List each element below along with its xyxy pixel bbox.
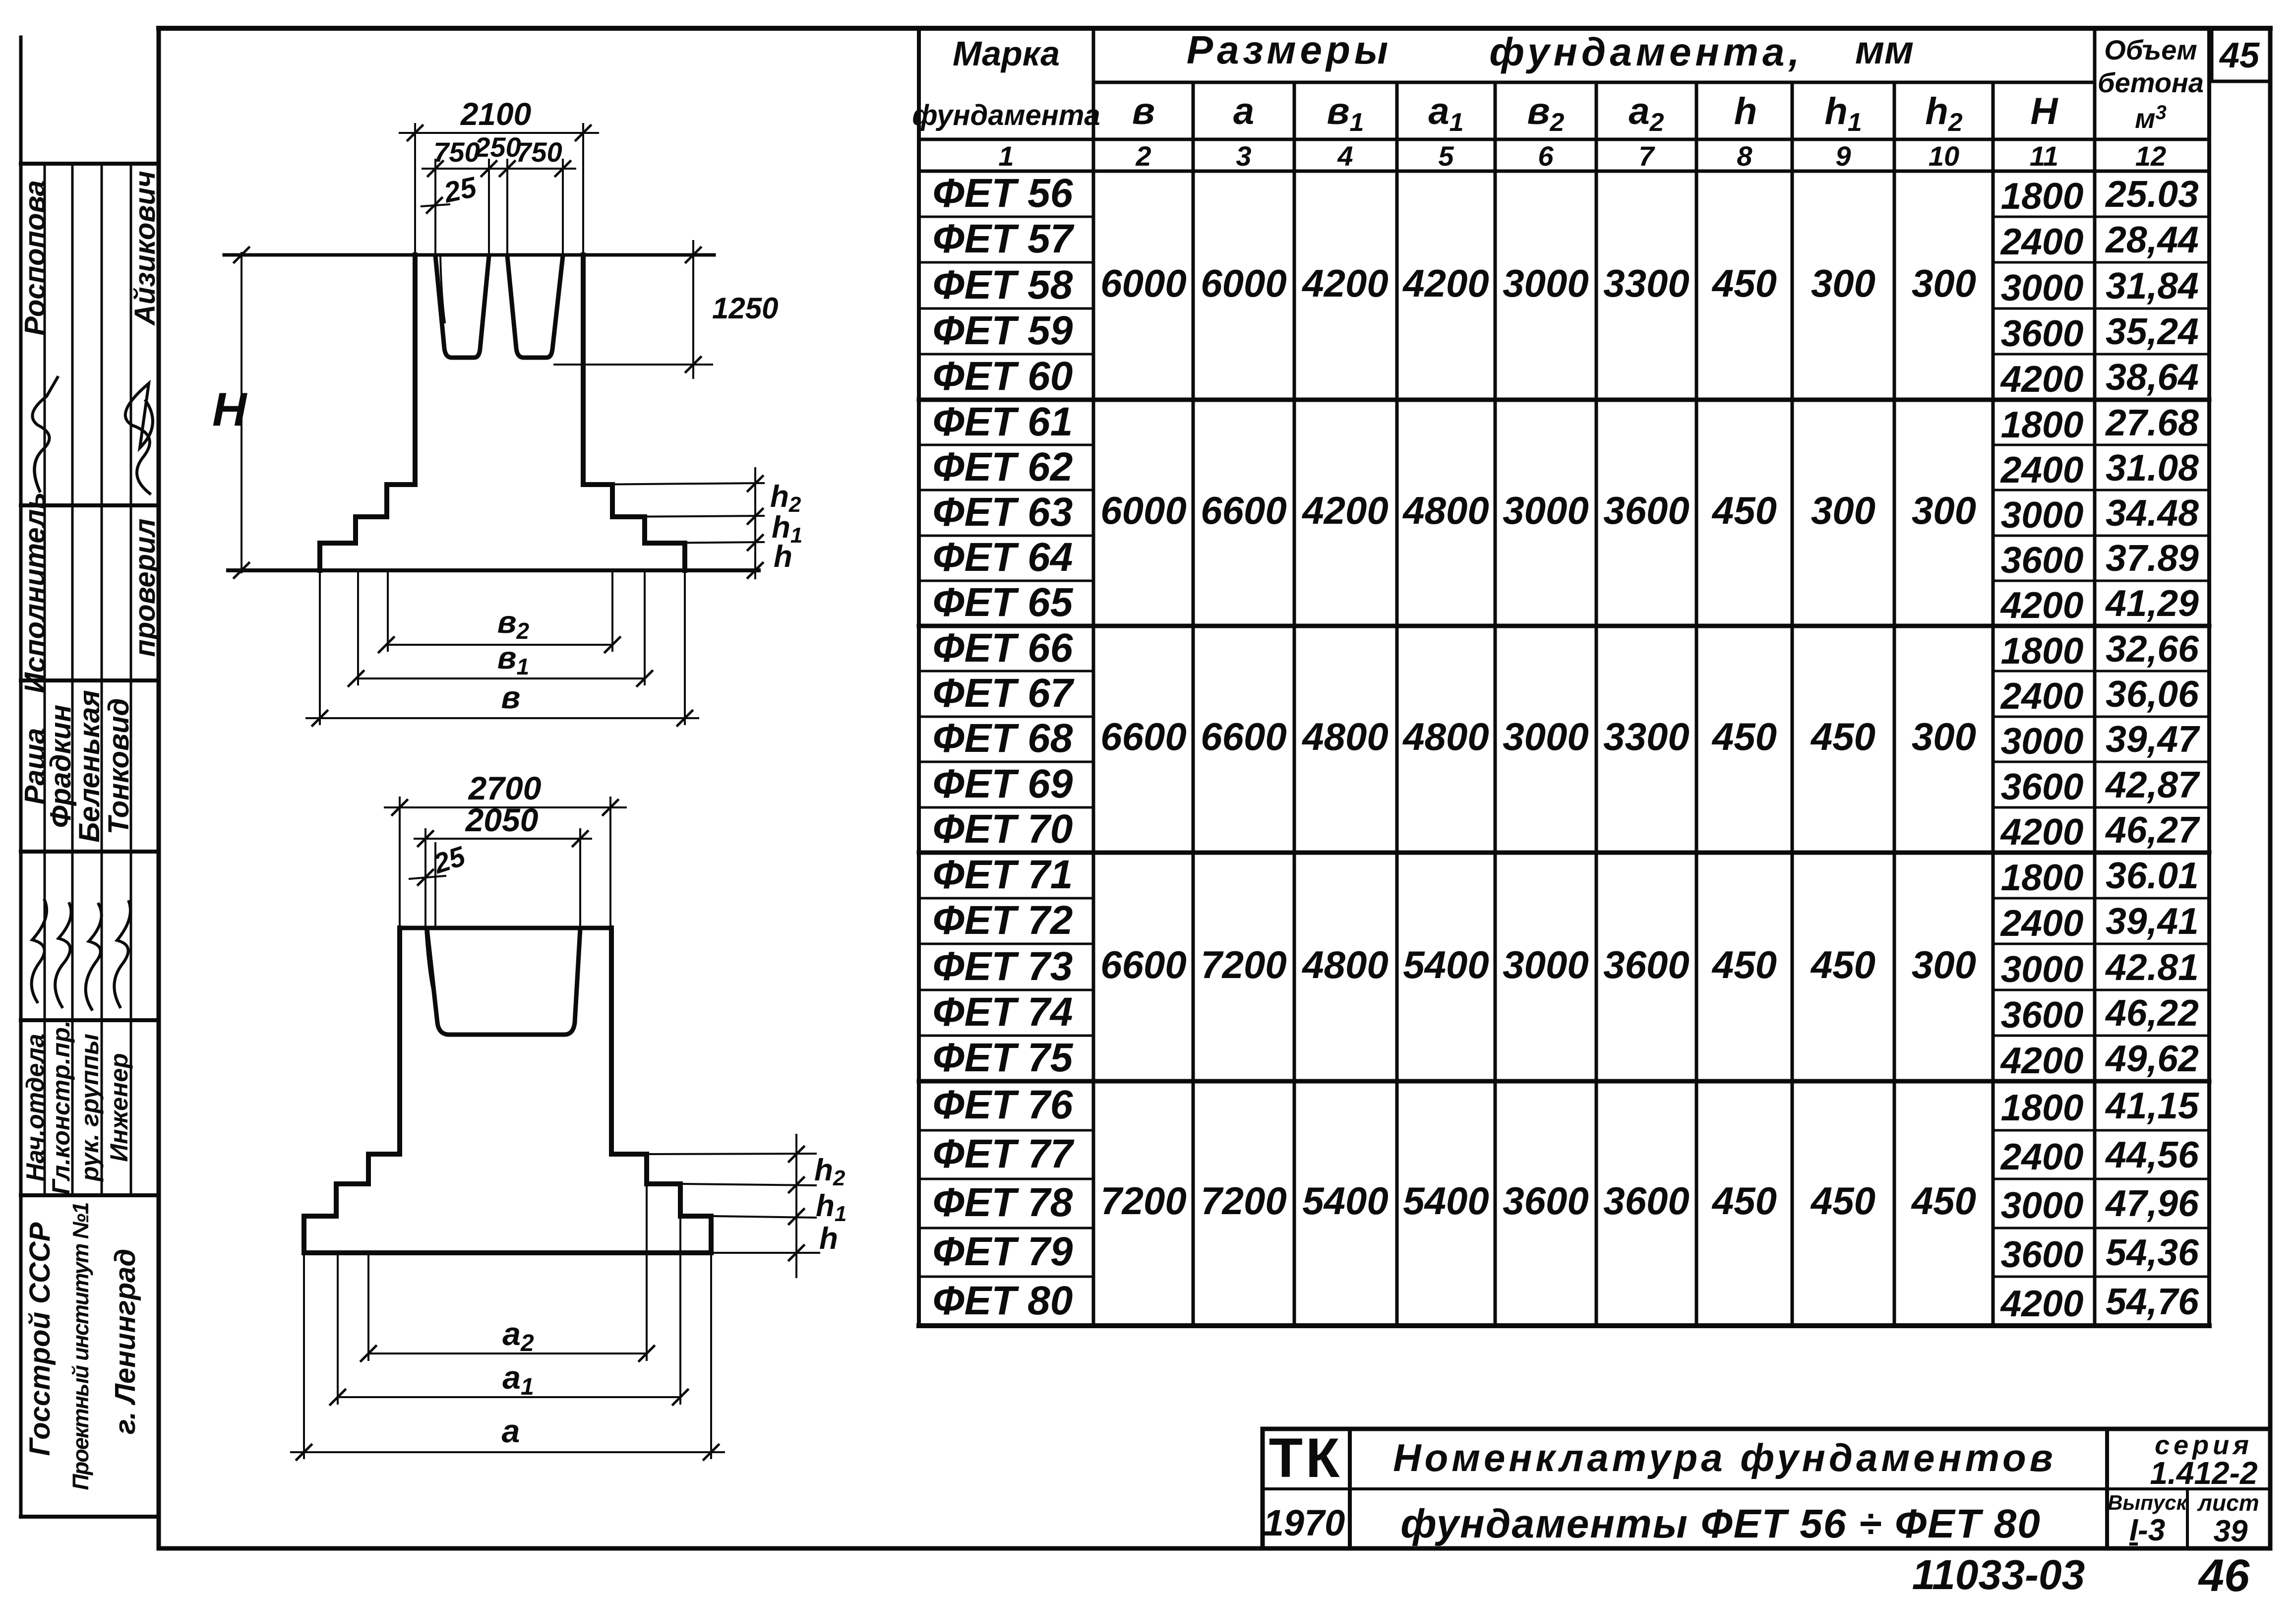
- svg-text:Фрадкин: Фрадкин: [45, 705, 77, 828]
- svg-text:46,22: 46,22: [2105, 992, 2199, 1034]
- svg-text:3600: 3600: [2001, 766, 2084, 807]
- svg-text:2050: 2050: [465, 801, 539, 838]
- svg-text:ФЕТ 75: ФЕТ 75: [933, 1035, 1074, 1080]
- svg-text:3300: 3300: [1603, 261, 1690, 305]
- svg-text:h1: h1: [1824, 90, 1862, 137]
- svg-text:6600: 6600: [1201, 715, 1287, 758]
- svg-text:ФЕТ 64: ФЕТ 64: [933, 535, 1073, 580]
- svg-text:5400: 5400: [1302, 1179, 1389, 1223]
- svg-text:Тонковид: Тонковид: [103, 698, 135, 835]
- svg-text:ТК: ТК: [1269, 1427, 1343, 1489]
- svg-text:4800: 4800: [1402, 715, 1489, 758]
- svg-text:ФЕТ 57: ФЕТ 57: [933, 216, 1075, 261]
- svg-text:3: 3: [1236, 140, 1251, 172]
- svg-text:250: 250: [474, 131, 521, 163]
- stamp organisation block: [24, 1203, 141, 1490]
- svg-text:3600: 3600: [1603, 943, 1690, 986]
- dimension 2050 (lower): [415, 829, 591, 925]
- svg-text:3600: 3600: [2001, 994, 2084, 1036]
- svg-text:37.89: 37.89: [2106, 537, 2199, 579]
- svg-text:2400: 2400: [2000, 449, 2084, 491]
- svg-text:фундаменты ФЕТ 56 ÷ ФЕТ 80: фундаменты ФЕТ 56 ÷ ФЕТ 80: [1400, 1501, 2041, 1546]
- svg-text:34.48: 34.48: [2106, 492, 2199, 534]
- svg-text:Айзикович: Айзикович: [129, 171, 161, 326]
- svg-text:5400: 5400: [1403, 1179, 1489, 1223]
- svg-text:2400: 2400: [2000, 675, 2084, 717]
- svg-text:1970: 1970: [1264, 1502, 1345, 1543]
- svg-text:1800: 1800: [2001, 175, 2084, 217]
- svg-text:2400: 2400: [2000, 902, 2084, 944]
- svg-text:фундамента: фундамента: [912, 99, 1100, 131]
- svg-text:6: 6: [1538, 140, 1554, 172]
- svg-text:Нач.отдела: Нач.отдела: [21, 1034, 49, 1181]
- svg-text:10: 10: [1929, 140, 1959, 172]
- svg-text:Н: Н: [2031, 90, 2059, 132]
- svg-text:ФЕТ 61: ФЕТ 61: [933, 399, 1073, 444]
- svg-text:4200: 4200: [2000, 1040, 2084, 1081]
- svg-text:а1: а1: [1428, 90, 1463, 137]
- svg-text:750: 750: [516, 136, 562, 168]
- svg-text:h2: h2: [814, 1153, 846, 1190]
- svg-text:4200: 4200: [2000, 584, 2084, 626]
- lower foundation section: column top: [304, 928, 819, 1253]
- svg-text:7200: 7200: [1201, 1179, 1287, 1223]
- svg-text:7200: 7200: [1100, 1179, 1187, 1223]
- svg-text:3300: 3300: [1603, 715, 1690, 758]
- svg-text:36,06: 36,06: [2106, 673, 2199, 715]
- svg-text:4800: 4800: [1402, 489, 1489, 532]
- svg-text:а2: а2: [502, 1315, 534, 1356]
- lower socket glass: [425, 929, 580, 1035]
- svg-text:Беленькая: Беленькая: [73, 690, 106, 843]
- svg-text:1800: 1800: [2001, 857, 2084, 898]
- svg-text:ФЕТ 79: ФЕТ 79: [933, 1229, 1073, 1274]
- svg-text:7: 7: [1638, 140, 1655, 172]
- svg-text:6600: 6600: [1100, 715, 1187, 758]
- svg-text:450: 450: [1810, 715, 1875, 758]
- svg-text:Объем: Объем: [2104, 34, 2197, 65]
- svg-text:ФЕТ 71: ФЕТ 71: [933, 852, 1073, 897]
- svg-text:2700: 2700: [468, 770, 542, 806]
- svg-text:h: h: [819, 1222, 838, 1256]
- svg-text:в2: в2: [1527, 90, 1565, 137]
- svg-text:в: в: [501, 679, 521, 715]
- stamp signatures (cursive scribbles): [32, 377, 153, 1009]
- svg-text:450: 450: [1810, 943, 1875, 986]
- svg-text:а2: а2: [1629, 90, 1664, 137]
- svg-text:H: H: [212, 383, 247, 436]
- svg-text:41,29: 41,29: [2105, 582, 2199, 624]
- svg-text:h: h: [774, 540, 792, 574]
- svg-text:3600: 3600: [1503, 1179, 1589, 1223]
- svg-text:2100: 2100: [460, 96, 531, 132]
- svg-text:6000: 6000: [1201, 261, 1287, 305]
- svg-text:фундамента,: фундамента,: [1489, 30, 1803, 74]
- svg-text:ФЕТ 63: ФЕТ 63: [933, 490, 1073, 535]
- svg-text:1.412-2: 1.412-2: [2150, 1455, 2257, 1491]
- nomenclature table grid: [919, 28, 2209, 1326]
- svg-text:54,76: 54,76: [2106, 1281, 2199, 1322]
- svg-text:а: а: [1233, 90, 1254, 132]
- svg-text:Выпуск: Выпуск: [2108, 1491, 2188, 1514]
- svg-text:2: 2: [1135, 140, 1151, 172]
- svg-text:ФЕТ 70: ФЕТ 70: [933, 806, 1073, 852]
- svg-text:рук. группы: рук. группы: [76, 1034, 104, 1182]
- upper socket glass 1: [435, 256, 563, 358]
- svg-text:6000: 6000: [1100, 261, 1187, 305]
- table header text: [912, 28, 2204, 137]
- upper foundation bottom line: [228, 568, 759, 572]
- left stamp grid: [21, 37, 159, 1517]
- svg-text:Размеры: Размеры: [1187, 28, 1392, 72]
- svg-text:42,87: 42,87: [2105, 764, 2200, 805]
- svg-text:300: 300: [1912, 489, 1976, 532]
- svg-text:2400: 2400: [2000, 1136, 2084, 1177]
- svg-text:ФЕТ 65: ФЕТ 65: [933, 580, 1074, 625]
- svg-text:3000: 3000: [2001, 494, 2084, 536]
- svg-text:3600: 3600: [1603, 1179, 1690, 1223]
- column numbers row: [998, 140, 2166, 172]
- svg-text:г. Ленинград: г. Ленинград: [109, 1249, 141, 1435]
- svg-text:25.03: 25.03: [2105, 173, 2199, 215]
- svg-text:44,56: 44,56: [2105, 1134, 2199, 1175]
- svg-text:Марка: Марка: [953, 34, 1060, 73]
- title block grid: [1263, 1429, 2270, 1548]
- svg-text:ФЕТ 78: ФЕТ 78: [933, 1180, 1073, 1225]
- svg-text:h2: h2: [1925, 90, 1962, 137]
- lower foundation column sides: [397, 928, 402, 1154]
- svg-text:Исполнитель: Исполнитель: [19, 492, 51, 693]
- svg-text:ФЕТ 69: ФЕТ 69: [933, 761, 1073, 806]
- svg-text:в: в: [1132, 90, 1155, 132]
- lower foundation steps: [304, 1154, 400, 1253]
- foundation mark names column: [933, 171, 1075, 1323]
- svg-text:а: а: [502, 1413, 520, 1449]
- svg-text:300: 300: [1912, 943, 1976, 986]
- svg-text:h: h: [1734, 90, 1757, 132]
- svg-text:4800: 4800: [1301, 943, 1389, 986]
- svg-text:I-3: I-3: [2129, 1513, 2165, 1547]
- svg-text:Гл.констр.пр.: Гл.констр.пр.: [47, 1020, 75, 1195]
- svg-text:ФЕТ 60: ФЕТ 60: [933, 354, 1073, 399]
- H column and concrete volume values: [2000, 173, 2201, 1324]
- upper socket glass 2: [507, 256, 563, 358]
- svg-text:28,44: 28,44: [2105, 219, 2199, 260]
- svg-text:27.68: 27.68: [2105, 402, 2199, 443]
- svg-text:7200: 7200: [1201, 943, 1287, 986]
- svg-text:4800: 4800: [1301, 715, 1389, 758]
- dimension 2100 (upper): [400, 124, 598, 252]
- dimensions а2 а1 а (lower below): [291, 1186, 724, 1458]
- svg-text:1800: 1800: [2001, 630, 2084, 672]
- svg-text:Инженер: Инженер: [105, 1053, 133, 1162]
- svg-text:4200: 4200: [1301, 489, 1389, 532]
- svg-text:6000: 6000: [1100, 489, 1187, 532]
- svg-text:12: 12: [2135, 140, 2166, 172]
- svg-text:450: 450: [1711, 715, 1777, 758]
- svg-text:45: 45: [2219, 36, 2260, 75]
- svg-text:300: 300: [1912, 715, 1976, 758]
- svg-text:1800: 1800: [2001, 1087, 2084, 1128]
- svg-text:4200: 4200: [2000, 811, 2084, 853]
- svg-text:3000: 3000: [2001, 267, 2084, 308]
- svg-text:h1: h1: [816, 1189, 846, 1226]
- dimension 1250 (upper): [554, 241, 712, 378]
- upper foundation profile left: [320, 255, 415, 570]
- svg-text:8: 8: [1737, 140, 1752, 172]
- svg-text:1800: 1800: [2001, 404, 2084, 445]
- svg-text:3000: 3000: [1503, 943, 1589, 986]
- svg-text:3000: 3000: [2001, 1184, 2084, 1226]
- svg-text:ФЕТ 56: ФЕТ 56: [933, 171, 1074, 216]
- svg-text:проверил: проверил: [129, 518, 161, 657]
- svg-text:а1: а1: [502, 1359, 534, 1400]
- upper foundation profile right: [583, 255, 685, 570]
- svg-text:4200: 4200: [2000, 358, 2084, 400]
- svg-text:3000: 3000: [1503, 261, 1589, 305]
- svg-text:450: 450: [1711, 1179, 1777, 1223]
- svg-text:4200: 4200: [1402, 261, 1489, 305]
- dimension values (grouped): [1100, 261, 1976, 1223]
- dimension 25 (lower): [410, 843, 445, 925]
- svg-text:3000: 3000: [2001, 948, 2084, 990]
- svg-text:3600: 3600: [1603, 489, 1690, 532]
- svg-text:4200: 4200: [2000, 1283, 2084, 1324]
- svg-text:3000: 3000: [1503, 489, 1589, 532]
- svg-text:3600: 3600: [2001, 539, 2084, 581]
- svg-text:54,36: 54,36: [2106, 1231, 2199, 1273]
- svg-text:ФЕТ 67: ФЕТ 67: [933, 671, 1075, 716]
- upper foundation section: top line: [224, 255, 759, 570]
- svg-text:1250: 1250: [712, 292, 778, 325]
- svg-text:450: 450: [1711, 943, 1777, 986]
- svg-text:Госстрой СССР: Госстрой СССР: [24, 1222, 56, 1456]
- svg-text:3000: 3000: [2001, 720, 2084, 762]
- svg-text:25: 25: [441, 171, 480, 209]
- svg-text:ФЕТ 74: ФЕТ 74: [933, 989, 1073, 1035]
- svg-text:46,27: 46,27: [2105, 809, 2200, 851]
- dimension H (upper): [241, 253, 242, 572]
- svg-text:6600: 6600: [1100, 943, 1187, 986]
- svg-text:36.01: 36.01: [2106, 855, 2199, 896]
- stamp text: executor names: [19, 171, 161, 843]
- svg-text:450: 450: [1711, 261, 1777, 305]
- svg-text:3600: 3600: [2001, 312, 2084, 354]
- svg-text:300: 300: [1912, 261, 1976, 305]
- svg-text:35,24: 35,24: [2106, 310, 2199, 352]
- svg-text:39,41: 39,41: [2106, 900, 2199, 942]
- svg-text:9: 9: [1835, 140, 1851, 172]
- svg-text:м3: м3: [2135, 102, 2167, 134]
- svg-text:31.08: 31.08: [2106, 447, 2199, 489]
- dimension 750 250 750 (upper): [423, 160, 575, 253]
- svg-text:Проектный институт №1: Проектный институт №1: [68, 1203, 93, 1490]
- svg-text:41,15: 41,15: [2105, 1085, 2199, 1126]
- svg-text:лист: лист: [2197, 1490, 2259, 1516]
- svg-text:ФЕТ 72: ФЕТ 72: [933, 898, 1073, 943]
- svg-text:4: 4: [1337, 140, 1353, 172]
- svg-text:1: 1: [998, 140, 1014, 172]
- svg-text:6600: 6600: [1201, 489, 1287, 532]
- svg-text:мм: мм: [1855, 28, 1914, 72]
- svg-text:Номенклатура фундаментов: Номенклатура фундаментов: [1393, 1436, 2056, 1479]
- dimensions h2 h1 h (upper right): [585, 468, 764, 578]
- svg-text:ФЕТ 66: ФЕТ 66: [933, 625, 1074, 671]
- svg-text:ФЕТ 59: ФЕТ 59: [933, 308, 1073, 353]
- svg-text:450: 450: [1911, 1179, 1976, 1223]
- svg-text:ФЕТ 77: ФЕТ 77: [933, 1131, 1075, 1176]
- sheet number box 45: [2212, 28, 2270, 81]
- svg-text:5: 5: [1438, 140, 1454, 172]
- svg-text:750: 750: [433, 136, 480, 168]
- svg-text:в1: в1: [1327, 90, 1364, 137]
- svg-text:в2: в2: [497, 604, 530, 644]
- svg-text:450: 450: [1711, 489, 1777, 532]
- svg-text:3600: 3600: [2001, 1233, 2084, 1275]
- svg-text:бетона: бетона: [2098, 67, 2204, 98]
- svg-text:ФЕТ 76: ФЕТ 76: [933, 1082, 1074, 1127]
- svg-text:4200: 4200: [1301, 261, 1389, 305]
- svg-text:42.81: 42.81: [2105, 946, 2199, 988]
- svg-text:ФЕТ 73: ФЕТ 73: [933, 944, 1073, 989]
- svg-text:39: 39: [2214, 1514, 2248, 1548]
- svg-text:300: 300: [1811, 489, 1875, 532]
- svg-text:38,64: 38,64: [2106, 356, 2199, 398]
- svg-text:11033-03: 11033-03: [1912, 1551, 2085, 1598]
- stamp text: job titles: [21, 1020, 133, 1195]
- dimension 25 (upper): [422, 204, 449, 206]
- svg-text:3000: 3000: [1503, 715, 1589, 758]
- svg-text:49,62: 49,62: [2105, 1038, 2199, 1079]
- lower foundation bottom line: [304, 1250, 711, 1255]
- svg-text:ФЕТ 62: ФЕТ 62: [933, 444, 1073, 490]
- svg-text:Роспопова: Роспопова: [19, 180, 51, 336]
- svg-text:5400: 5400: [1403, 943, 1489, 986]
- svg-text:11: 11: [2030, 140, 2058, 172]
- svg-text:ФЕТ 58: ФЕТ 58: [933, 262, 1073, 307]
- svg-text:300: 300: [1811, 261, 1875, 305]
- dimensions в2 в1 в (upper below): [306, 573, 698, 724]
- svg-text:32,66: 32,66: [2106, 628, 2199, 670]
- svg-text:ФЕТ 68: ФЕТ 68: [933, 716, 1073, 761]
- svg-text:450: 450: [1810, 1179, 1875, 1223]
- svg-text:31,84: 31,84: [2106, 265, 2199, 307]
- dimension 2700 (lower): [385, 798, 626, 925]
- svg-text:47,96: 47,96: [2105, 1182, 2199, 1224]
- svg-text:39,47: 39,47: [2106, 718, 2200, 760]
- svg-text:ФЕТ 80: ФЕТ 80: [933, 1278, 1073, 1323]
- svg-text:2400: 2400: [2000, 221, 2084, 262]
- dimensions h2 h1 h (lower right): [650, 1135, 816, 1277]
- svg-text:46: 46: [2198, 1550, 2250, 1599]
